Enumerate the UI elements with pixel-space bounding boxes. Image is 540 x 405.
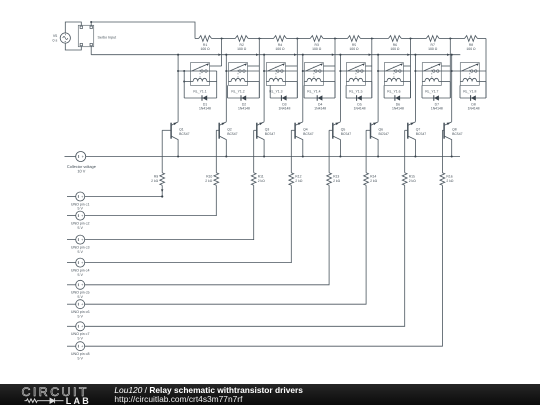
- svg-text:UNO pin c8: UNO pin c8: [71, 352, 90, 356]
- svg-text:UNO pin c3: UNO pin c3: [71, 245, 90, 249]
- svg-text:Q8: Q8: [452, 128, 457, 132]
- svg-text:R16: R16: [446, 175, 452, 179]
- svg-text:UNO pin c4: UNO pin c4: [71, 268, 90, 272]
- svg-text:2 kΩ: 2 kΩ: [151, 179, 159, 183]
- svg-text:BC547: BC547: [452, 132, 462, 136]
- svg-text:100 Ω: 100 Ω: [390, 47, 400, 51]
- svg-text:R10: R10: [206, 175, 212, 179]
- svg-text:Q6: Q6: [379, 128, 384, 132]
- svg-text:2 kΩ: 2 kΩ: [409, 179, 417, 183]
- svg-text:R13: R13: [333, 175, 339, 179]
- svg-text:10 V: 10 V: [77, 169, 85, 174]
- svg-text:RL_Y1.6: RL_Y1.6: [387, 89, 400, 93]
- svg-text:RL_Y1.5: RL_Y1.5: [349, 89, 362, 93]
- svg-text:R9: R9: [154, 175, 158, 179]
- svg-text:1N4148: 1N4148: [278, 107, 290, 111]
- svg-text:BC547: BC547: [227, 132, 237, 136]
- svg-text:Q1: Q1: [179, 128, 184, 132]
- svg-text:R15: R15: [409, 175, 415, 179]
- svg-text:Q2: Q2: [227, 128, 232, 132]
- svg-text:5 V: 5 V: [77, 337, 83, 341]
- svg-text:Q5: Q5: [341, 128, 346, 132]
- svg-text:100 Ω: 100 Ω: [237, 47, 247, 51]
- svg-text:5 V: 5 V: [77, 273, 83, 277]
- svg-text:5 V: 5 V: [77, 356, 83, 360]
- svg-text:1N4148: 1N4148: [468, 107, 480, 111]
- svg-text:UNO pin c2: UNO pin c2: [71, 221, 90, 225]
- svg-text:5 V: 5 V: [77, 295, 83, 299]
- svg-text:1N4148: 1N4148: [238, 107, 250, 111]
- svg-text:R14: R14: [370, 175, 376, 179]
- svg-text:2 kΩ: 2 kΩ: [446, 179, 454, 183]
- svg-text:RL_Y1.4: RL_Y1.4: [307, 89, 320, 93]
- svg-text:V5: V5: [53, 34, 57, 38]
- svg-text:5 V: 5 V: [77, 250, 83, 254]
- svg-text:BC547: BC547: [416, 132, 426, 136]
- svg-text:UNO pin c5: UNO pin c5: [71, 291, 90, 295]
- svg-text:2 kΩ: 2 kΩ: [205, 179, 213, 183]
- svg-text:Q7: Q7: [416, 128, 421, 132]
- svg-text:100 Ω: 100 Ω: [349, 47, 359, 51]
- svg-text:5 V: 5 V: [77, 226, 83, 230]
- svg-text:0 s: 0 s: [53, 39, 58, 43]
- svg-text:1N4148: 1N4148: [354, 107, 366, 111]
- svg-text:RL_Y1.3: RL_Y1.3: [269, 89, 282, 93]
- svg-text:R11: R11: [258, 175, 264, 179]
- svg-text:RL_Y1.2: RL_Y1.2: [231, 89, 244, 93]
- svg-text:UNO pin c1: UNO pin c1: [71, 202, 90, 206]
- svg-text:2 kΩ: 2 kΩ: [370, 179, 378, 183]
- svg-text:Serbo Input: Serbo Input: [98, 35, 117, 39]
- svg-text:UNO pin c7: UNO pin c7: [71, 332, 90, 336]
- svg-text:RL_Y1.8: RL_Y1.8: [463, 89, 476, 93]
- svg-text:100 Ω: 100 Ω: [275, 47, 285, 51]
- svg-text:RL_Y1.7: RL_Y1.7: [425, 89, 438, 93]
- svg-text:5 V: 5 V: [77, 207, 83, 211]
- svg-text:RL_Y1.1: RL_Y1.1: [193, 89, 206, 93]
- svg-text:R12: R12: [295, 175, 301, 179]
- svg-text:100 Ω: 100 Ω: [428, 47, 438, 51]
- svg-text:1N4148: 1N4148: [392, 107, 404, 111]
- svg-text:UNO pin c6: UNO pin c6: [71, 310, 90, 314]
- svg-text:100 Ω: 100 Ω: [312, 47, 322, 51]
- svg-text:Q3: Q3: [265, 128, 270, 132]
- svg-text:2 kΩ: 2 kΩ: [333, 179, 341, 183]
- svg-text:BC547: BC547: [303, 132, 313, 136]
- svg-text:BC547: BC547: [265, 132, 275, 136]
- svg-text:BC547: BC547: [379, 132, 389, 136]
- svg-text:Q4: Q4: [303, 128, 308, 132]
- svg-text:2 kΩ: 2 kΩ: [258, 179, 266, 183]
- svg-text:1N4148: 1N4148: [431, 107, 443, 111]
- svg-text:100 Ω: 100 Ω: [466, 47, 476, 51]
- svg-text:100 Ω: 100 Ω: [201, 47, 211, 51]
- svg-text:5 V: 5 V: [77, 314, 83, 318]
- svg-text:BC547: BC547: [341, 132, 351, 136]
- svg-text:1N4148: 1N4148: [314, 107, 326, 111]
- svg-text:1N4148: 1N4148: [199, 107, 211, 111]
- svg-text:BC547: BC547: [179, 132, 189, 136]
- svg-text:LAB: LAB: [66, 395, 91, 405]
- svg-text:2 kΩ: 2 kΩ: [295, 179, 303, 183]
